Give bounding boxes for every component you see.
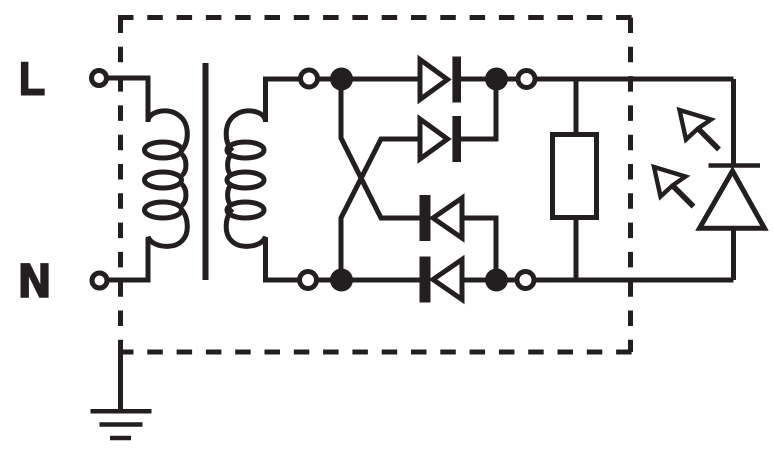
open connector bottom-right [517, 272, 534, 289]
diode D4 [420, 257, 463, 303]
wire crossing: top-left node to lower diode D3 [341, 79, 420, 218]
open connector top-right [518, 71, 535, 88]
ground bar 2 [100, 422, 143, 427]
LED triangle [700, 171, 765, 228]
open connector top-left [301, 70, 318, 87]
ground bar 3 [110, 436, 131, 441]
enclosure dashed outline left edge [118, 18, 123, 353]
LED cathode bar [709, 163, 761, 168]
terminal N [92, 273, 107, 288]
transformer core [203, 63, 209, 280]
wire top rail to resistor [574, 79, 579, 134]
LED light arrow upper [680, 110, 720, 150]
transformer primary winding [145, 111, 188, 246]
wire LED anode to bottom rail [731, 229, 736, 280]
node dot bottom-left [330, 269, 353, 292]
enclosure dashed outline top edge [118, 15, 633, 20]
diode D2 [420, 116, 461, 162]
ground bar 1 [91, 409, 152, 414]
wire crossing: bottom-left node to upper diode D2 [341, 139, 420, 280]
wire L terminal to primary top [99, 78, 148, 122]
node dot top-right [485, 68, 508, 91]
wire diode D3 output down to bottom-right node [462, 218, 496, 280]
diode D3 [420, 195, 463, 241]
diode D1 [420, 57, 461, 103]
resistor [553, 135, 597, 218]
node dot top-left [330, 68, 353, 91]
wire top rail right section [461, 77, 734, 82]
label L [21, 62, 45, 96]
terminal L [92, 71, 107, 86]
enclosure dashed outline right edge [628, 18, 633, 353]
wire bottom rail right section [462, 278, 734, 283]
transformer secondary winding [226, 111, 265, 246]
node dot bottom-right [485, 269, 508, 292]
wire secondary top to top rail [266, 79, 421, 122]
LED light arrow lower [654, 167, 694, 207]
wire right rail to LED cathode [731, 79, 736, 165]
wire resistor to bottom rail [574, 218, 579, 280]
ground stem [118, 350, 123, 411]
wire secondary bottom to bottom rail [266, 238, 420, 281]
enclosure dashed outline bottom edge [118, 350, 633, 355]
wire diode D2 output up to top-right node [461, 79, 496, 139]
wire primary bottom to N terminal [99, 238, 148, 280]
label N [21, 263, 49, 298]
open connector bottom-left [300, 272, 317, 289]
